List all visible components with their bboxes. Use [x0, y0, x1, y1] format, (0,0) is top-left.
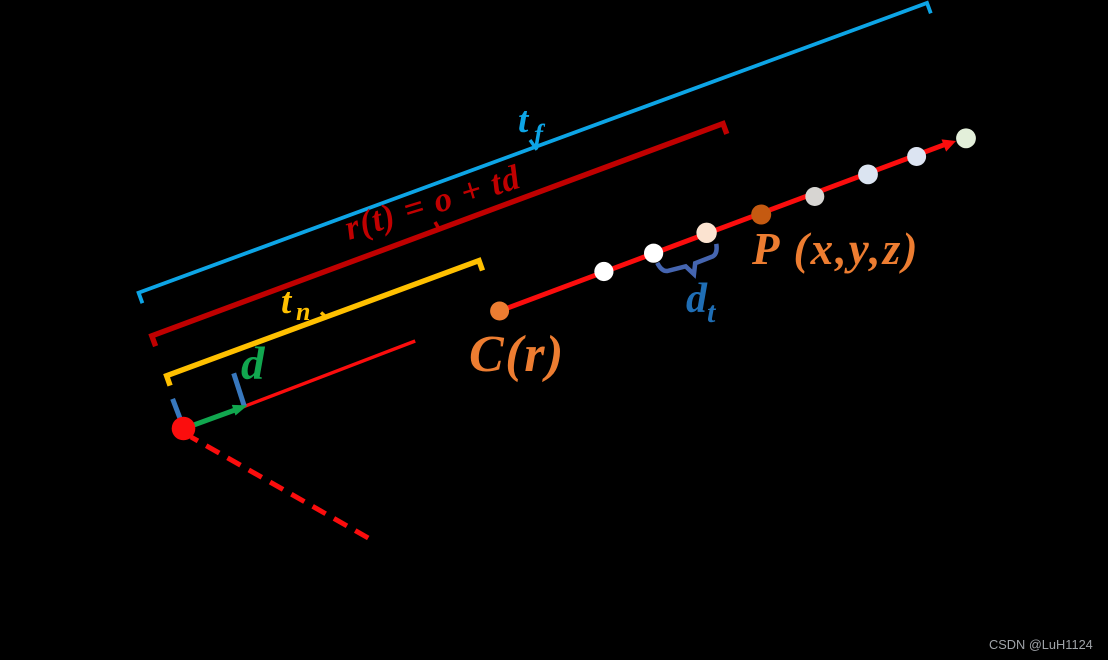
- svg-text:t: t: [281, 281, 293, 322]
- label t_n: [281, 281, 310, 326]
- cyan range bracket (t_f extent): [139, 3, 931, 303]
- blue curly brace for d_t interval: [657, 244, 723, 284]
- svg-text:C(r): C(r): [469, 326, 565, 383]
- sample dot 6 (pale blue): [858, 165, 878, 185]
- green direction arrow d: [185, 405, 248, 429]
- svg-text:d: d: [241, 338, 266, 390]
- sample dot C(r) origin (orange): [490, 302, 509, 321]
- thick red ray with arrow (sample ray): [500, 139, 956, 311]
- leader tick from t_f to cyan line: [530, 140, 537, 150]
- red dashed ray below origin: [191, 437, 370, 539]
- blue tick at t_n position on ray: [234, 373, 245, 407]
- label r(t) = o + td (rotated along line): [340, 157, 525, 247]
- sample dot 1 (white): [594, 262, 613, 281]
- svg-text:n: n: [296, 297, 310, 326]
- sample dot 5 (light gray): [805, 187, 824, 206]
- sample dot 4 P (dark orange): [751, 205, 771, 225]
- sample dot 7 (pale blue): [907, 147, 926, 166]
- svg-text:P (x,y,z): P (x,y,z): [751, 224, 920, 274]
- svg-text:d: d: [686, 276, 708, 322]
- sample dot 8 (pale green, ray end): [956, 128, 976, 148]
- label d_t (blue): [686, 276, 717, 329]
- leader tick from equation to dark red line: [435, 222, 440, 230]
- red origin dot: [172, 417, 196, 441]
- sample dot 3 (light peach): [696, 223, 716, 243]
- thin red ray segment from origin: [242, 341, 415, 407]
- sample dot 2 (white): [644, 244, 663, 263]
- leader tick from t_n to yellow line: [321, 313, 328, 319]
- svg-text:t: t: [518, 100, 530, 141]
- label t_f: [518, 100, 546, 149]
- yellow range bracket (t_n extent): [167, 261, 483, 386]
- dark red range bracket r(t): [152, 124, 727, 347]
- svg-text:CSDN @LuH1124: CSDN @LuH1124: [989, 637, 1093, 652]
- blue tick near origin: [173, 399, 181, 420]
